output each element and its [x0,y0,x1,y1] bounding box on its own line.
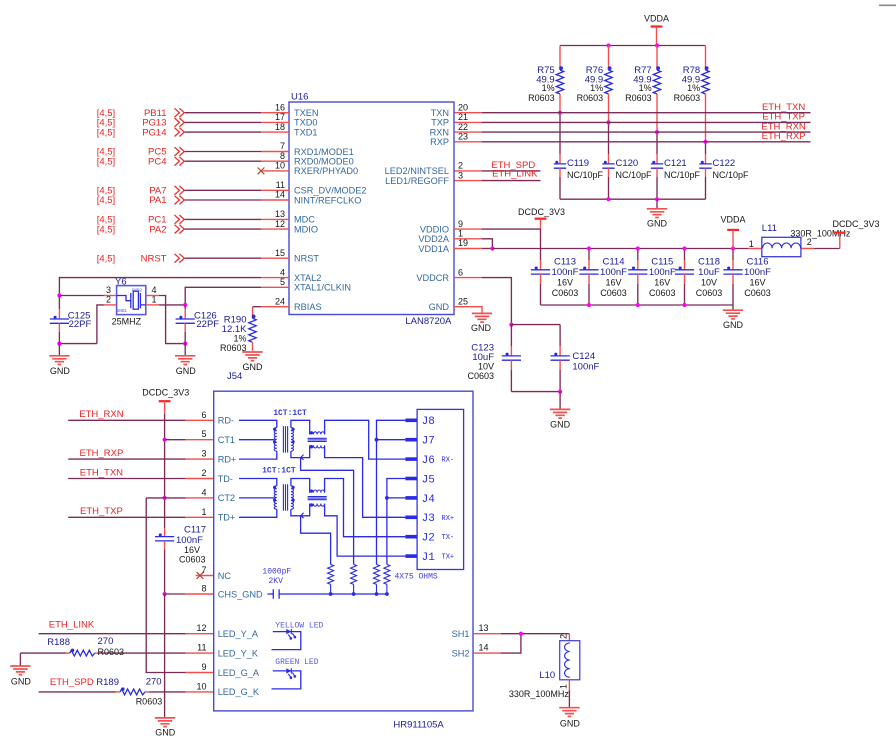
wire L11 pin2 to DCDC_3V3 [814,248,840,250]
svg-text:GND: GND [243,362,264,372]
sheet border fragment top right [879,4,896,6]
svg-text:16: 16 [275,102,285,112]
wire TX CMC out to J2 [325,479,406,537]
svg-text:ETH_LINK: ETH_LINK [492,168,538,179]
pin 22 RXN U16 right [430,122,468,138]
ground under C116 column [723,305,744,330]
wire VDDCR node to C124 [511,324,560,326]
svg-text:R0603: R0603 [577,93,604,103]
node J7 RJ45 contact [405,436,434,448]
svg-text:SH1: SH1 [452,629,470,639]
svg-text:R0603: R0603 [625,93,652,103]
wire ETH_TXN [68,478,214,480]
node J8 RJ45 contact [405,416,434,428]
net label ETH_RXN to RD- pin 6 [79,409,123,420]
ground under C117 column [155,718,176,738]
pin 9 VDDIO U16 right [420,219,463,235]
svg-text:8: 8 [201,584,206,594]
wire crystal gnd horizontal left [59,343,97,345]
svg-text:1: 1 [749,239,754,249]
resistor R term 4 75 ohm [384,564,390,594]
svg-text:TXN: TXN [431,108,449,118]
svg-text:16V: 16V [749,278,765,288]
wire ETH_TXP [68,516,214,518]
svg-text:J8: J8 [422,416,435,428]
svg-text:C119: C119 [567,158,589,169]
transformer TX 1CT:1CT [239,467,327,518]
junction C124 bottom [558,390,562,394]
svg-text:C117: C117 [184,525,206,536]
IC U16 LAN8720A body [289,91,454,327]
pin 16 TXEN U16 left [261,102,319,118]
svg-text:[4,5]: [4,5] [97,224,116,235]
pin 8 CHS_GND J54 left [201,584,263,600]
junction R77 column at signal row [655,130,659,134]
resistor R78 49.9 1% R0603 [674,46,710,142]
wire VDDIO pin 9 to DCDC_3V3 [454,228,541,230]
pin 6 VDDCR U16 right [416,267,463,283]
wire PG14 to U16 [185,131,261,133]
diode yellow LED [272,622,324,650]
junction C126 bottom [183,342,187,346]
node J1 RJ45 contact [405,552,454,564]
wire LED1/REGOFF pin 3 to ETH_LINK [454,180,540,182]
junction R term 1 at chassis rail [329,592,333,596]
svg-text:R188: R188 [47,637,70,648]
svg-text:NC/10pF: NC/10pF [567,170,604,180]
wire pin 23 row to port ETH_RXP [454,141,811,143]
wire top bus [560,45,706,47]
resistor R77 49.9 1% R0603 [625,46,661,133]
svg-text:VDDA: VDDA [720,215,745,225]
pin 23 RXP U16 right [430,132,468,148]
svg-text:GND: GND [176,366,197,376]
svg-text:TXD0: TXD0 [294,118,318,128]
svg-text:MDIO: MDIO [294,224,318,234]
pin 5 XTAL1/CLKIN U16 left [261,277,351,293]
wire XTAL2 pin 4 to crystal pin 3 [59,278,261,296]
capacitor C116 100nF 16V C0603 [723,249,771,306]
node J4 RJ45 contact [405,494,435,506]
port NRST [4,5] input [97,253,185,264]
junction bottom rail C115 [636,303,640,307]
svg-text:R0603: R0603 [674,93,701,103]
wire ETH_RXP [68,458,214,460]
pin 15 NRST U16 left [261,248,319,264]
junction CT2 tap [163,496,167,500]
wire TX CT to R term 1 [301,516,331,565]
svg-text:5: 5 [201,429,206,439]
svg-text:270: 270 [98,636,114,647]
net label ETH_SPD [491,160,535,171]
wire PC5 to U16 [185,151,261,153]
svg-text:19: 19 [458,238,468,248]
svg-text:YELLOW LED: YELLOW LED [275,622,323,631]
svg-text:24: 24 [275,296,285,306]
svg-text:TXP: TXP [431,118,449,128]
port PA2 [4,5] input [97,224,185,235]
wire PA7 to U16 [185,189,261,191]
svg-text:L10: L10 [539,670,555,681]
resistor R189 270 R0603 [39,677,214,707]
svg-text:1000pF: 1000pF [262,568,291,577]
port PC4 [4,5] input [97,156,185,167]
svg-text:CSR_DV/MODE2: CSR_DV/MODE2 [294,186,367,196]
wire NRST to U16 [185,257,261,259]
svg-text:J54: J54 [227,371,242,382]
pin 11 CSR_DV/MODE2 U16 left [261,180,367,196]
pin 4 CT2 J54 left [201,487,235,503]
net label ETH_TXP to TD+ pin 1 [80,506,123,517]
svg-text:ETH_RXN: ETH_RXN [79,409,123,420]
svg-text:ETH_LINK: ETH_LINK [49,619,95,630]
svg-text:4: 4 [201,487,206,497]
svg-text:C0603: C0603 [179,554,206,564]
junction R76 column at signal row [606,120,610,124]
resistor R190 12.1K 1% R0603 [220,307,261,353]
svg-text:GND: GND [471,323,492,333]
svg-text:J4: J4 [422,494,436,506]
pin 6 RD- J54 left [201,410,234,426]
junction top bus at VDDA feed [655,43,659,47]
svg-text:GND: GND [550,419,571,429]
svg-text:7: 7 [280,141,285,151]
pin 14 NINT/REFCLKO U16 left [261,190,361,206]
svg-text:20: 20 [458,102,468,112]
svg-text:PC4: PC4 [148,156,166,167]
junction R75 column at signal row [558,111,562,115]
svg-text:PA1: PA1 [149,195,166,206]
svg-text:GND: GND [560,719,581,729]
wire bottom rail of C113-C116 [541,304,734,306]
svg-text:21: 21 [458,112,468,122]
ground pin 25 U16 [454,307,492,333]
capacitor C117 100nF 16V C0603 [155,525,206,594]
svg-text:3: 3 [458,170,463,180]
svg-text:LED2/NINTSEL: LED2/NINTSEL [385,166,449,176]
svg-text:100nF: 100nF [572,361,599,372]
svg-text:7: 7 [201,565,206,575]
node J5 RJ45 contact [405,474,434,486]
svg-text:TX-: TX- [442,534,455,542]
svg-text:C120: C120 [616,158,639,169]
pin 2 TD- J54 left [201,468,233,484]
svg-text:TD-: TD- [218,474,233,484]
junction CT1 tap [163,438,167,442]
capacitor C114 100nF 16V C0603 [579,249,627,306]
pin 4 XTAL2 U16 left [261,267,321,283]
capacitor C120 NC/10pF [602,158,652,199]
pin 10 RXER/PHYAD0 U16 left [261,161,358,177]
label J54 [227,371,242,382]
pin 10 LED_G_K J54 left [196,681,259,697]
power flag DCDC_3V3 right [832,219,879,249]
svg-text:11: 11 [197,643,206,653]
svg-text:NC: NC [218,571,232,581]
svg-text:15: 15 [275,248,285,258]
svg-text:R0603: R0603 [98,647,125,657]
svg-text:TXEN: TXEN [294,108,319,118]
junction J7 tie [375,438,379,442]
svg-text:RD+: RD+ [218,454,237,464]
svg-text:13: 13 [479,623,489,633]
capacitor C113 100nF 16V C0603 column [531,229,579,305]
svg-text:DCDC_3V3: DCDC_3V3 [518,207,565,217]
junction bottom bus GND [655,197,659,201]
net label ETH_RXP to RD+ pin 3 [79,448,123,459]
svg-text:C0603: C0603 [649,288,676,298]
junction top bus at R76 [606,43,610,47]
junction bottom bus C120 [606,197,610,201]
node J6 RJ45 contact [405,455,454,467]
pin 12 MDIO U16 left [261,219,318,235]
wire VDD1A pin 19 [454,248,492,250]
svg-text:MDC: MDC [294,215,315,225]
wire crystal pin3 stub [59,295,116,297]
wire C123/C124 bottom rail [511,391,560,393]
wire PB11 to U16 [185,112,261,114]
svg-text:NRST: NRST [294,254,319,264]
svg-text:[4,5]: [4,5] [97,253,116,264]
svg-text:DCDC_3V3: DCDC_3V3 [142,388,189,398]
svg-text:100nF: 100nF [649,267,676,278]
pin 9 LED_G_A J54 left [201,662,259,678]
svg-text:NC/10pF: NC/10pF [713,170,750,180]
svg-text:16V: 16V [605,278,621,288]
svg-text:22PF: 22PF [69,319,92,330]
pin 21 TXP U16 right [431,112,468,128]
svg-text:RXN: RXN [430,127,449,137]
svg-text:C0603: C0603 [744,288,771,298]
ground under C125 [49,344,70,376]
net label ETH_RXP [762,131,806,142]
capacitor C122 NC/10pF [699,158,749,199]
pin 12 LED_Y_A J54 left [196,623,258,639]
junction VDD1A/VDD2A [490,246,494,250]
ground under L10 [559,690,580,729]
wire SH2 up to SH1 [501,634,521,653]
port PB11 [4,5] input [97,108,185,119]
junction bottom rail C118 [682,303,686,307]
wire pin 22 row to port ETH_RXN [454,131,811,133]
wire PC1 to U16 [185,218,261,220]
ground under C124 [550,392,571,430]
wire CT1 pin 5 stub [165,439,214,441]
svg-text:R0603: R0603 [528,93,555,103]
svg-text:PG14: PG14 [142,127,166,138]
pin 8 RXD0/MODE0 U16 left [261,151,354,167]
svg-text:100nF: 100nF [600,267,627,278]
svg-text:J2: J2 [422,533,435,545]
wire RX CT to R term 2 [301,458,354,565]
svg-text:J5: J5 [422,474,435,486]
junction rail at C118 [682,246,686,250]
svg-text:TD+: TD+ [218,513,236,523]
svg-text:SH2: SH2 [452,648,470,658]
net label ETH_TXN [762,102,805,113]
node J2 RJ45 contact [405,533,454,545]
svg-text:ETH_TXN: ETH_TXN [80,467,123,478]
svg-text:GND1: GND1 [117,310,128,314]
svg-text:1CT:1CT: 1CT:1CT [273,409,307,418]
wire PA1 to U16 [185,199,261,201]
svg-text:Y6: Y6 [115,276,127,287]
capacitor C125 22PF [50,296,92,344]
svg-text:100nF: 100nF [552,267,579,278]
port PC5 [4,5] input [97,147,185,158]
svg-text:LED_Y_A: LED_Y_A [218,629,259,639]
ground under R190 [242,352,263,372]
svg-text:LAN8720A: LAN8720A [405,316,452,327]
capacitor C124 100nF [551,325,600,392]
svg-text:2: 2 [458,161,463,171]
svg-text:10: 10 [196,681,206,691]
wire LED2/NINTSEL pin 2 to ETH_SPD [454,170,540,172]
junction CHS_GND [163,592,167,596]
wire CHS_GND pin 8 [165,593,214,595]
junction C125 bottom [57,342,61,346]
wire J5/J4 tie to R term 4 [387,479,406,565]
wire CT2 pin 4 stub [165,497,214,499]
svg-text:J7: J7 [422,436,435,448]
svg-text:NC/10pF: NC/10pF [664,170,701,180]
svg-text:LED_G_A: LED_G_A [218,668,260,678]
capacitor C126 22PF [176,305,220,344]
svg-text:2KV: 2KV [269,577,284,586]
wire RX CMC out to J6 [325,420,406,459]
svg-text:U16: U16 [291,91,308,102]
resistor R188 270 R0603 [20,636,213,657]
port PC1 [4,5] input [97,215,185,226]
svg-text:11: 11 [276,180,285,190]
pin 3 LED1/REGOFF U16 right [385,170,463,186]
junction R term 3 at chassis rail [375,592,379,596]
svg-text:CT2: CT2 [218,493,235,503]
power flag VDDA top [644,14,669,46]
ground under C126 [175,344,196,376]
svg-text:1: 1 [201,507,206,517]
svg-text:25: 25 [458,296,468,306]
svg-text:VDDCR: VDDCR [416,273,449,283]
svg-text:C0603: C0603 [552,288,579,298]
svg-text:6: 6 [201,410,206,420]
svg-text:RX+: RX+ [442,515,455,523]
svg-text:GND2: GND2 [132,290,143,294]
resistor R76 49.9 1% R0603 [577,46,613,123]
net label ETH_TXP [762,112,805,123]
junction rail at C114 [587,246,591,250]
junction VDDCR node [509,323,513,327]
svg-text:17: 17 [275,112,285,122]
svg-text:9: 9 [201,662,206,672]
svg-text:12: 12 [275,219,285,229]
svg-text:J1: J1 [422,552,436,564]
svg-text:XTAL1/CLKIN: XTAL1/CLKIN [294,283,351,293]
wire PC4 to U16 [185,160,261,162]
svg-text:2: 2 [559,634,569,639]
svg-text:22PF: 22PF [196,319,219,330]
junction R term 4 at chassis rail [385,592,389,596]
wire TX CMC out to J1 [325,504,406,556]
svg-text:100nF: 100nF [744,267,771,278]
wire J8/J7 tie to R term 3 [377,420,406,564]
svg-text:2: 2 [807,237,812,247]
junction R78 column at signal row [703,140,707,144]
capacitor C118 10uF 10V C0603 [675,249,722,306]
svg-text:16V: 16V [654,278,670,288]
net label ETH_SPD to R189 [50,677,94,688]
svg-text:14: 14 [275,190,285,200]
wire pin 21 row to port ETH_TXP [454,121,811,123]
svg-text:RXP: RXP [430,137,449,147]
power flag VDDA mid [720,215,745,249]
pin 20 TXN U16 right [431,102,468,118]
svg-text:1: 1 [458,229,463,239]
pin 17 TXD0 U16 left [261,112,318,128]
svg-text:CHS_GND: CHS_GND [218,589,263,599]
svg-text:LED_G_K: LED_G_K [218,687,260,697]
resistor R term 3 75 ohm [374,564,380,594]
inductor L10 330R_100MHz [509,634,580,699]
pin 25 GND U16 right [429,296,468,312]
svg-text:6: 6 [458,267,463,277]
wire XTAL1 pin 5 to crystal pin 1 [185,287,261,305]
svg-text:12: 12 [196,623,206,633]
pin 14 SH2 J54 right [452,643,501,659]
wire pin 20 row to port ETH_TXN [454,112,811,114]
svg-text:13: 13 [275,209,285,219]
crystal Y6 25MHZ [112,276,146,326]
svg-text:LED_Y_K: LED_Y_K [218,648,259,658]
ground under C119-C122 bus [647,199,668,228]
svg-text:GND: GND [155,728,176,738]
svg-text:1CT:1CT: 1CT:1CT [262,467,296,476]
svg-text:1%: 1% [590,83,603,93]
no-connect X on NC pin 7 [196,572,214,579]
wire LED_G_A feed from CT2 node [146,498,214,673]
capacitor 1000pF 2KV chassis [262,568,387,599]
RJ45 contact block inner box [417,409,464,569]
svg-text:18: 18 [275,122,285,132]
svg-text:VDD2A: VDD2A [418,234,450,244]
transformer RX 1CT:1CT [239,409,327,460]
svg-text:J6: J6 [422,455,435,467]
svg-text:4: 4 [280,267,285,277]
junction XTAL2 / C125 / Y6.3 [57,293,61,297]
svg-text:R189: R189 [96,677,119,688]
net label ETH_LINK [492,168,538,179]
wire CT2 horizontal to LED_G_A drop [146,497,164,499]
wire crystal pin2 to gnd net [97,305,117,344]
svg-text:NINT/REFCLKO: NINT/REFCLKO [294,195,361,205]
capacitor C115 100nF 16V C0603 [628,249,676,306]
svg-text:ETH_RXP: ETH_RXP [79,448,123,459]
svg-text:VDDIO: VDDIO [420,224,449,234]
svg-text:ETH_RXP: ETH_RXP [762,131,806,142]
junction bottom rail C114 [587,303,591,307]
svg-text:10: 10 [275,161,285,171]
svg-text:C122: C122 [713,158,736,169]
svg-text:1%: 1% [233,334,246,344]
wire R76 column to cap C120 [608,122,610,163]
wire R78 column to cap C122 [705,142,707,164]
power flag DCDC_3V3 bottom [142,388,189,414]
svg-text:NRST: NRST [141,253,167,264]
wire RX CMC out to J3 [325,445,406,517]
net label ETH_RXN [761,121,805,132]
svg-text:NC/10pF: NC/10pF [616,170,653,180]
svg-text:TX+: TX+ [442,554,455,562]
